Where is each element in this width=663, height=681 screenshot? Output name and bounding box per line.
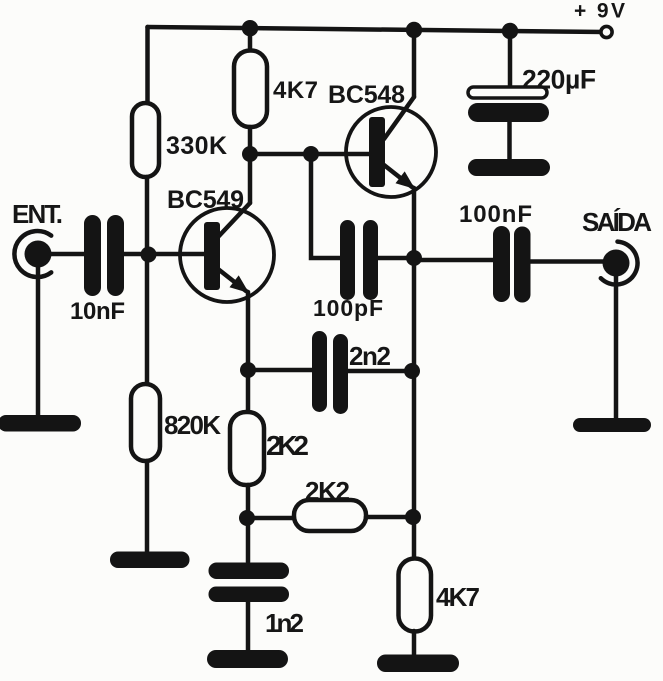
svg-text:100nF: 100nF xyxy=(459,201,532,228)
node below 4K7 junction dot xyxy=(242,146,258,162)
capacitor C 220uF positive plate xyxy=(468,87,547,98)
capacitor C 1n2 plates xyxy=(209,563,290,580)
wire BC548 emitter down to 4K7 bottom xyxy=(412,188,417,557)
ground bar below 1n2 xyxy=(207,650,288,668)
wire 2n2 right xyxy=(348,369,414,374)
wire base node down to 820K xyxy=(145,254,150,384)
wire top supply rail xyxy=(148,27,605,32)
node rail-220uF junction dot xyxy=(502,23,518,39)
wire 10nF to BC549 base xyxy=(124,252,204,257)
wire 100pF right to emitter line xyxy=(378,256,414,261)
svg-text:+ 9V: + 9V xyxy=(574,0,625,23)
wire 2K2h right xyxy=(366,515,414,520)
node rail-BC548 junction dot xyxy=(406,22,422,38)
resistor R 4K7 bottom body xyxy=(399,559,432,632)
wire 820K bottom to ground xyxy=(145,461,150,554)
node 2K2h right junction dot xyxy=(405,509,421,525)
capacitor C 100pF plates xyxy=(340,220,355,300)
wire 220uF to ground xyxy=(507,122,512,160)
transistor Q1 BC549 circle xyxy=(180,208,274,302)
svg-text:2K2: 2K2 xyxy=(266,430,309,461)
svg-text:1n2: 1n2 xyxy=(265,608,304,638)
node rail-4K7 junction dot xyxy=(242,20,258,36)
output jack SAIDA arc xyxy=(601,242,638,285)
capacitor C 2n2 plates xyxy=(312,331,327,412)
wire left vertical from rail to 330K xyxy=(145,27,150,103)
wire BC549 emitter down to 2n2 node xyxy=(246,292,251,412)
node base junction dot xyxy=(141,247,157,263)
transistor Q1 BC549 base bar xyxy=(204,222,220,290)
transistor Q2 BC548 base bar xyxy=(369,117,385,187)
wire 100nF to SAIDA jack xyxy=(530,259,605,264)
wire 2K2 bottom to node xyxy=(246,485,251,562)
svg-text:2n2: 2n2 xyxy=(349,341,391,371)
wire SAIDA stem to ground xyxy=(614,275,619,420)
wire 4K7 bottom to ground xyxy=(412,631,417,656)
svg-text:ENT.: ENT. xyxy=(12,199,63,229)
wire rail to 220uF xyxy=(508,31,513,87)
resistor R 4K7 top body xyxy=(234,51,267,128)
resistor R 820K body xyxy=(131,384,160,461)
resistor R 2K2 vertical body xyxy=(230,412,264,485)
wire 1n2 to ground xyxy=(246,602,251,652)
svg-text:100pF: 100pF xyxy=(313,295,383,321)
svg-text:4K7: 4K7 xyxy=(273,77,318,104)
transistor Q2 BC548 emitter arrow xyxy=(396,171,416,189)
svg-text:10nF: 10nF xyxy=(70,298,125,325)
capacitor C 10nF plates xyxy=(84,215,101,296)
svg-text:4K7: 4K7 xyxy=(436,582,480,612)
ground bar below 4K7 xyxy=(377,655,459,673)
resistor R 2K2 horizontal body xyxy=(294,500,366,531)
input jack ENT arc xyxy=(14,231,51,277)
resistor R 330K body xyxy=(132,103,159,177)
wire emitter node to 100nF xyxy=(414,258,495,263)
svg-text:820K: 820K xyxy=(164,410,221,440)
wire BC548 collector to rail xyxy=(412,30,417,97)
wire ENT dot to C 10nF xyxy=(45,252,84,257)
svg-text:330K: 330K xyxy=(166,132,227,160)
node 100pF branch dot xyxy=(303,146,319,162)
wire rail to 4K7 top xyxy=(248,28,253,53)
node emitter output junction dot xyxy=(406,250,422,266)
svg-text:SAÍDA: SAÍDA xyxy=(582,207,652,237)
wire branch down to 100pF xyxy=(311,154,340,258)
ground bar below SAIDA xyxy=(573,418,651,432)
transistor Q1 BC549 collector line xyxy=(218,203,250,237)
wire 4K7 bottom to node xyxy=(248,127,253,154)
transistor Q2 BC548 emitter line xyxy=(384,165,412,187)
capacitor C 100nF plates xyxy=(493,226,510,302)
ground bar below ENT xyxy=(0,415,81,432)
wire ENT stem to ground xyxy=(36,265,41,418)
svg-text:BC548: BC548 xyxy=(328,81,405,109)
transistor Q2 BC548 circle xyxy=(346,107,436,197)
capacitor C 220uF negative plate xyxy=(468,103,549,122)
output jack SAIDA center dot xyxy=(603,250,630,277)
node 2n2 left junction dot xyxy=(240,362,256,378)
transistor Q1 BC549 emitter line xyxy=(218,269,246,291)
wire node to BC548 base xyxy=(250,152,369,157)
transistor Q1 BC549 emitter arrow xyxy=(230,275,250,293)
transistor Q2 BC548 collector line xyxy=(384,97,414,139)
ground bar below 820K xyxy=(110,552,190,569)
wire 2n2 left xyxy=(248,368,312,373)
input jack ENT center dot xyxy=(25,241,52,268)
wire 330K bottom to base node xyxy=(145,177,150,254)
ground bar below 220uF xyxy=(468,159,550,176)
wire BC549 collector up xyxy=(248,154,253,203)
node 2n2 right junction dot xyxy=(404,363,420,379)
power terminal +9V xyxy=(601,26,612,37)
node 2K2h left junction dot xyxy=(239,510,255,526)
wire 2K2h left xyxy=(247,516,294,521)
